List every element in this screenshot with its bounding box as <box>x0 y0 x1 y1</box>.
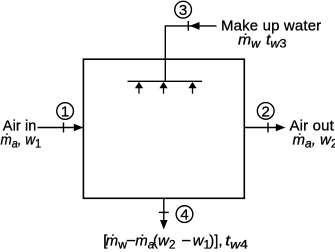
chamber box <box>83 59 244 198</box>
node circle 3 <box>175 1 192 18</box>
svg-text:4: 4 <box>180 207 188 224</box>
tick: state point 3 marker <box>187 21 189 31</box>
node circle 4 <box>176 206 193 223</box>
arrowhead: drain (points down) <box>160 220 168 230</box>
node circle 2 <box>257 103 274 120</box>
arrowhead: air in (points right) <box>74 124 84 132</box>
spray header <box>128 80 203 82</box>
svg-text:3: 3 <box>179 2 187 19</box>
tick: state point 2 marker <box>267 123 269 133</box>
tick: state point 1 marker <box>63 123 65 133</box>
svg-text:Make up water: Make up water <box>221 18 321 35</box>
svg-text:−: − <box>181 233 191 250</box>
wire: drain line <box>163 198 165 222</box>
spray nozzle arrow (right) <box>188 82 196 94</box>
wire: air inlet arrow <box>38 127 77 129</box>
label: [m_w - m_a(w_2 - w_1)], t_w4 <box>103 233 248 252</box>
tick: state point 4 marker <box>159 211 169 213</box>
svg-text:2: 2 <box>262 103 270 120</box>
node circle 1 <box>57 103 74 120</box>
wire: air outlet arrow <box>245 127 278 129</box>
spray nozzle arrow (left) <box>135 82 143 94</box>
spray nozzle arrow (middle) <box>159 82 167 94</box>
wire: make-up water feed line <box>165 26 216 81</box>
arrowhead: make-up water (points left) <box>190 22 200 30</box>
svg-text:1: 1 <box>61 103 69 120</box>
svg-text:ṁa, w2: ṁa, w2 <box>293 132 335 151</box>
arrowhead: air out (points right) <box>276 124 286 132</box>
